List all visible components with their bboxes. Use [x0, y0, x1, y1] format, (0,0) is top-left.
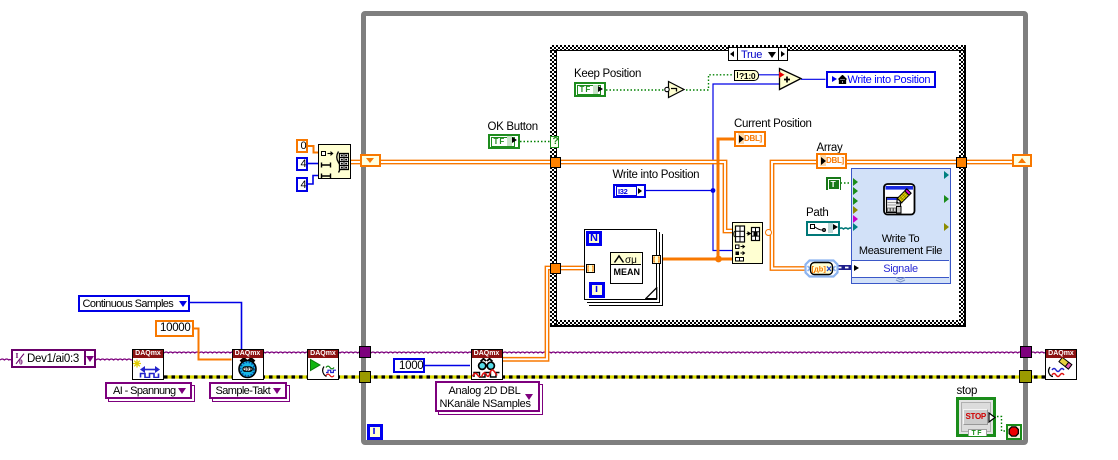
svg-text:1010: 1010 — [243, 368, 254, 373]
svg-text:[дb]: [дb] — [812, 264, 827, 273]
svg-text:σμ: σμ — [625, 254, 637, 263]
